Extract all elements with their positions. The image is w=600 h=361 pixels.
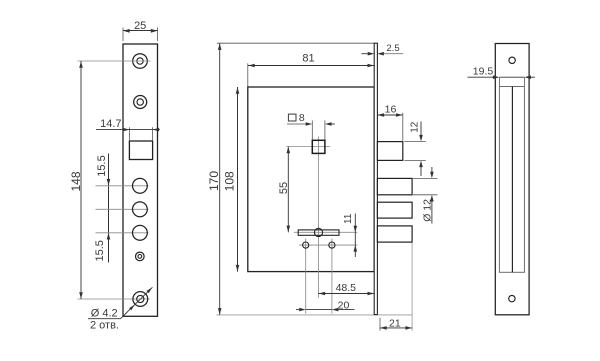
strike slot: [499, 87, 524, 273]
screw hole left centerline vertical: [305, 239, 307, 314]
svg-text:148: 148: [69, 171, 83, 191]
dim 170 arrow bottom: [218, 308, 222, 315]
svg-text:11: 11: [343, 213, 354, 224]
dia 12 bottom extension: [413, 194, 437, 196]
lever bar centerline: [294, 231, 357, 233]
dim 8 leader line under label: [287, 123, 306, 125]
svg-text:21: 21: [389, 317, 401, 329]
centerline hole A: [96, 185, 149, 187]
faceplate front outline: [123, 44, 158, 316]
screw hole top inner: [137, 58, 143, 64]
label square-8 symbol: [288, 114, 296, 121]
dim 170 arrow top: [218, 43, 222, 50]
lock hole A: [133, 178, 148, 193]
dim 16 arrow left: [378, 113, 385, 117]
dim 8 extension lines: [312, 121, 325, 140]
dim 81 extension left: [247, 63, 249, 86]
dim 81 line: [248, 65, 374, 67]
leader arrow lower: [129, 305, 135, 311]
dim 21 arrow left: [380, 326, 387, 330]
dim 14.7 arrow right (outside, points left): [153, 128, 160, 132]
latch top extension: [404, 141, 426, 143]
dia 12 arrow lower (points up): [430, 195, 434, 202]
svg-text:14.7: 14.7: [100, 118, 121, 130]
screw hole bottom inner: [137, 295, 144, 302]
dim 48.5 line: [318, 293, 374, 295]
strike plate outline: [495, 44, 529, 315]
dim 8 arrow left (points right): [306, 122, 313, 126]
centerline hole B: [96, 208, 149, 210]
dim 19.5 line right tail: [531, 76, 535, 78]
dim 12 line upper: [420, 122, 422, 136]
strike slot divider: [511, 87, 513, 273]
svg-text:20: 20: [338, 300, 350, 312]
faceplate side view: [374, 43, 377, 314]
svg-text:15.5: 15.5: [94, 240, 106, 261]
small hole below C outer: [136, 252, 145, 261]
dim 21 line: [380, 327, 412, 329]
dim 108 arrow top: [236, 87, 240, 94]
leader diagonal for 4.2 holes: [121, 287, 153, 318]
dim 12 arrow lower (points up): [419, 161, 423, 168]
svg-text:15.5: 15.5: [96, 155, 108, 176]
dim 16 arrow right: [396, 113, 403, 117]
dim 108 arrow bottom: [236, 265, 240, 272]
dim 12 line lower: [420, 167, 422, 176]
dim 12 arrow upper (points down): [419, 135, 423, 142]
dim 14.7 arrow left (outside, points right): [123, 128, 129, 132]
dim 15.5 lower arrow (points up): [107, 233, 111, 240]
dim 8 arrow right (points left): [325, 122, 332, 126]
dim 19.5 line left tail: [468, 76, 494, 78]
dim 148 arrow bottom: [79, 292, 83, 299]
svg-text:48.5: 48.5: [336, 282, 357, 294]
lock hole B: [133, 202, 148, 217]
dim 19.5 arrow right (points left): [524, 75, 531, 79]
screw holes centerline: [299, 244, 357, 246]
lever hub circle: [314, 228, 322, 236]
dim 21 arrow right: [405, 326, 412, 330]
dia 12 dim line lower: [431, 201, 433, 224]
centerline bottom (148 lower extension): [78, 298, 150, 300]
dim 21 extension left: [379, 318, 381, 331]
cylinder hole 2 outer: [134, 96, 147, 109]
screw hole bottom outer: [133, 292, 148, 307]
svg-text:12: 12: [410, 121, 421, 133]
screw hole top outer: [133, 54, 148, 69]
dim 20 right arrow and tail: [332, 308, 339, 312]
dim 16 extension: [402, 113, 404, 141]
latch bolt: [377, 142, 402, 161]
svg-text:8: 8: [299, 112, 305, 124]
svg-text:Ø 12: Ø 12: [421, 199, 433, 222]
dim 148 line: [80, 61, 82, 299]
latch window square: [129, 141, 152, 160]
dim 170 line: [219, 43, 221, 315]
svg-text:81: 81: [302, 53, 314, 65]
dim 148 arrow top: [79, 61, 83, 67]
svg-text:16: 16: [385, 104, 397, 116]
dim 11 arrow upper (points down): [354, 226, 358, 233]
leader arrow upper: [147, 287, 153, 293]
svg-text:2.5: 2.5: [386, 43, 399, 54]
dead bolt 3: [377, 226, 412, 242]
dim 2.5 left arrow: [368, 52, 375, 56]
screw hole right: [329, 242, 335, 248]
spindle square: [312, 140, 325, 153]
lock hole C: [133, 225, 148, 240]
dim 55 line: [287, 147, 289, 233]
dim 25 extension lines: [123, 28, 158, 42]
centerline top (148 upper extension): [78, 60, 151, 62]
dim 14.7 extension lines: [129, 127, 152, 140]
svg-text:170: 170: [207, 171, 221, 191]
dim 19.5 arrow left (points right): [493, 75, 500, 79]
dim 48.5 arrow right: [368, 292, 375, 296]
dim 11 arrow lower (points up): [354, 245, 358, 252]
dim 20 line between: [306, 309, 332, 311]
dead bolt 1: [377, 178, 412, 194]
dim 15.5 shared line: [108, 154, 110, 263]
small hole below C inner: [138, 255, 142, 259]
strike screw hole top: [509, 57, 515, 63]
dim 20 left arrow and tail: [296, 309, 299, 311]
dia 12 top extension: [413, 177, 437, 179]
dim 11 line: [354, 214, 356, 258]
screw hole right centerline vertical: [331, 239, 333, 314]
lever bar: [298, 230, 339, 235]
lock body outline: [248, 87, 374, 272]
svg-text:108: 108: [222, 171, 236, 191]
dim 14.7 line: [96, 129, 160, 131]
svg-text:2 отв.: 2 отв.: [90, 320, 119, 332]
strike screw hole bottom: [509, 295, 515, 301]
dim 19.5 extension lines: [499, 77, 524, 86]
dim 25 line: [123, 30, 158, 32]
bottom extension line: [217, 314, 413, 316]
dia 12 arrow upper (points down): [430, 172, 434, 179]
dim 19.5 line middle: [499, 76, 524, 78]
dim 2.5 right arrow and tail: [377, 52, 384, 56]
dim 108 line: [237, 87, 239, 272]
dead bolt 2: [377, 202, 412, 218]
dim 15.5 upper arrow (points down): [107, 179, 111, 186]
svg-text:Ø 4.2: Ø 4.2: [91, 308, 118, 320]
dim 48.5 arrow left: [319, 292, 326, 296]
latch bottom extension: [404, 159, 426, 161]
leader underline: [88, 318, 121, 320]
svg-text:55: 55: [278, 182, 290, 194]
svg-text:25: 25: [134, 20, 146, 32]
dim 25 arrow left: [123, 29, 130, 33]
svg-text:19.5: 19.5: [473, 66, 494, 78]
dim 16 line: [377, 114, 402, 116]
top extension line: [217, 42, 374, 44]
cylinder hole 2 inner: [137, 99, 143, 105]
screw hole left: [303, 242, 309, 248]
centerline hole C: [96, 232, 149, 234]
dim 55 arrow bottom: [287, 226, 291, 233]
dim 21 extension right (long): [411, 243, 413, 331]
dim 81 arrow left: [248, 64, 255, 68]
dia 12 dim line upper: [431, 167, 433, 172]
dim 25 arrow right: [151, 29, 158, 33]
spindle vertical centerline: [317, 137, 319, 298]
dim 55 arrow top: [287, 147, 291, 154]
dim 81 arrow right: [368, 64, 375, 68]
spindle horizontal centerline: [286, 146, 330, 148]
